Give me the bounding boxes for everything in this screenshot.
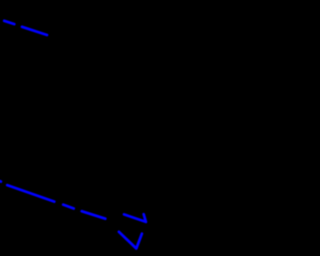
wire: upper dashed line, dash 1	[4, 21, 14, 24]
node: arrowhead lower V stroke	[119, 232, 142, 249]
wire: lower arrow shaft, long dash	[7, 185, 54, 202]
wire: lower arrow shaft, clipped dash at left edge	[0, 179, 1, 183]
node: arrowhead upper barb meeting tip	[124, 214, 146, 222]
wire: upper dashed line, dash 2	[22, 27, 47, 35]
wire: lower arrow shaft, mid dash	[63, 205, 73, 209]
hand-drawn dashed blue arrow sketch on black canvas	[0, 0, 256, 256]
wire: lower arrow shaft, end dash	[82, 211, 106, 219]
